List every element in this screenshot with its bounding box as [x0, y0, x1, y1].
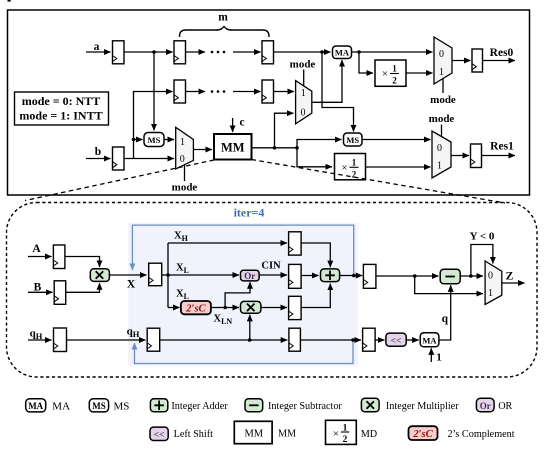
wire reg4c to adder bottom — [301, 284, 330, 308]
wire row1 to MA — [274, 51, 331, 53]
multiplier MM box — [214, 134, 252, 160]
svg-text:MS: MS — [114, 401, 130, 413]
svg-text:1: 1 — [439, 67, 444, 78]
wire reg5 to subtractor — [376, 275, 439, 277]
wire junction to MS2 top — [322, 52, 354, 132]
svg-text:MS: MS — [92, 401, 106, 411]
legend MA box — [26, 399, 46, 412]
legend MS box — [89, 399, 108, 412]
subtractor MS2 box — [344, 133, 363, 146]
svg-text:1: 1 — [488, 288, 493, 299]
wire qH to reg2 — [67, 339, 146, 341]
wire XL rail to Or — [168, 274, 239, 276]
svg-text:MA: MA — [422, 336, 437, 346]
legend MD box — [326, 420, 357, 445]
svg-text:0: 0 — [180, 154, 185, 165]
register res1 — [471, 144, 482, 168]
register reg4d — [289, 328, 301, 351]
register row1 last — [262, 41, 274, 64]
svg-text:MM: MM — [221, 141, 245, 155]
svg-text:1: 1 — [352, 157, 357, 167]
svg-text:2’s Complement: 2’s Complement — [448, 429, 515, 440]
wire shifter to MA2 — [406, 339, 419, 341]
wire mux res1 select — [441, 125, 443, 138]
svg-text:Y < 0: Y < 0 — [470, 231, 495, 243]
node junction a — [152, 50, 156, 54]
svg-text:<<: << — [391, 336, 402, 346]
node junction MM-mux1 — [273, 146, 277, 150]
register reg4a XH — [289, 232, 302, 255]
svg-text:<<: << — [154, 430, 165, 440]
svg-text:c: c — [240, 117, 245, 129]
svg-text:X: X — [127, 279, 136, 291]
node junction b-MS1 — [132, 138, 136, 142]
svg-text:MS: MS — [346, 135, 359, 145]
svg-text:A: A — [32, 243, 41, 255]
svg-text:Integer Subtractor: Integer Subtractor — [268, 401, 342, 412]
legend shifter box — [150, 427, 168, 440]
wire RA to mult1 top — [65, 257, 100, 268]
node junction q rail mult2 — [248, 338, 252, 342]
wire XLN to Or bottom — [225, 282, 250, 307]
mux1 labels — [301, 88, 306, 119]
register RqH2 — [147, 328, 160, 351]
wire MM to half-b box — [297, 148, 332, 167]
svg-text:Res0: Res0 — [490, 47, 514, 59]
svg-text:m: m — [218, 12, 228, 24]
legend MM box — [234, 421, 272, 443]
wire a input — [86, 51, 111, 53]
adder plus box — [321, 269, 340, 282]
wire Res1 output — [482, 155, 516, 157]
register reg4c XLN — [289, 296, 302, 319]
wire row2 to mux1 — [274, 91, 295, 93]
legend adder box — [150, 399, 167, 412]
svg-text:1: 1 — [180, 137, 185, 148]
wire sub to mux3 input0 — [460, 275, 483, 277]
mux1 mode-select row2 path — [296, 81, 312, 124]
wire reg4b to adder — [301, 275, 318, 277]
register Ra — [113, 41, 125, 64]
block 2sC two's complement — [181, 301, 211, 315]
dashed detail box MM internals — [7, 203, 538, 378]
svg-text:2′sC: 2′sC — [185, 304, 206, 315]
mux res1 — [432, 131, 451, 178]
wire Y to mux3 input1 — [415, 276, 483, 294]
wire mult1 to X reg — [109, 274, 146, 276]
wire qH input — [28, 339, 52, 341]
svg-text:mode = 1: INTT: mode = 1: INTT — [19, 109, 102, 123]
wire adder to reg5 — [340, 275, 363, 277]
svg-text:Res1: Res1 — [490, 141, 514, 153]
subtractor minus box — [440, 269, 460, 284]
node junction XLN — [223, 306, 227, 310]
mux res0 labels — [439, 49, 444, 78]
svg-text:Left Shift: Left Shift — [174, 429, 213, 440]
svg-text:0: 0 — [437, 143, 442, 154]
legend Or box — [476, 398, 494, 412]
wire MM output — [252, 147, 298, 149]
node junction blue bottom — [351, 338, 355, 342]
wire mux res1 to reg — [451, 155, 469, 157]
wire MA1 output — [352, 51, 433, 53]
svg-text:1: 1 — [437, 161, 442, 172]
wire blue feedback bottom loop — [135, 340, 354, 364]
wire X branch vertical — [162, 243, 168, 308]
svg-text:mode: mode — [430, 94, 456, 106]
wire qH rail to reg4d — [160, 339, 288, 341]
wire MA out to half-a — [359, 52, 373, 73]
wire mult2 bottom input from q rail — [249, 315, 251, 340]
node junction Y — [413, 274, 417, 278]
wire Or to reg4b — [259, 274, 287, 276]
mode legend box — [15, 92, 109, 125]
register row2 first — [174, 80, 186, 103]
brace m — [180, 27, 270, 38]
wire row1 dots — [186, 51, 261, 54]
node junction MM branch — [295, 146, 299, 150]
wire A input — [28, 256, 52, 258]
svg-text:MA: MA — [335, 48, 350, 58]
register reg5b — [363, 328, 376, 351]
outer box of NTT/INTT datapath — [8, 10, 530, 195]
svg-text:1: 1 — [392, 64, 397, 74]
adder MA1 box — [333, 46, 352, 59]
legend 2sC box — [409, 426, 438, 440]
svg-text:b: b — [95, 146, 101, 158]
node junction MA out — [357, 50, 361, 54]
multiplier half-a box x1/2 — [375, 60, 406, 86]
svg-text:0: 0 — [439, 49, 444, 60]
wire RB to mult1 bottom — [66, 283, 100, 292]
register RX — [149, 263, 162, 286]
subtractor MS1 box — [144, 133, 164, 147]
svg-text:CIN: CIN — [261, 260, 281, 271]
wire a junction down to MS1 top — [153, 52, 155, 131]
node junction blue top — [352, 274, 356, 278]
register Rb — [113, 147, 125, 170]
mux res0 — [434, 37, 452, 84]
svg-text:MA: MA — [28, 401, 43, 411]
svg-text:2: 2 — [392, 76, 397, 86]
register reg4b XL — [289, 264, 302, 288]
wire mux1 to MA bottom — [312, 60, 342, 102]
iter region fill — [128, 223, 357, 366]
wire half-b to res1 mux — [366, 166, 431, 168]
wire Y less 0 to mux3 select — [471, 245, 493, 277]
wire b to mux2 — [124, 158, 174, 160]
svg-text:MS: MS — [148, 135, 161, 145]
node junction row1-MS2 — [320, 50, 324, 54]
adder MA2 box — [420, 333, 439, 347]
svg-text:MD: MD — [361, 429, 377, 440]
svg-text:Integer Adder: Integer Adder — [171, 401, 228, 412]
wire mult2 to reg4c — [261, 307, 287, 309]
svg-text:2: 2 — [343, 435, 348, 445]
wire mux2 select mode — [184, 165, 186, 181]
svg-text:×: × — [333, 428, 339, 440]
wire MM to MS2 left — [297, 140, 342, 148]
wire 2sC to mult2 — [211, 307, 239, 309]
register RqH — [54, 328, 67, 352]
wire mux res0 to reg — [452, 60, 471, 62]
svg-text:mode: mode — [172, 182, 198, 194]
wire zoom dashed left — [25, 160, 214, 201]
register RA — [53, 245, 65, 269]
wire reg5b to shifter — [375, 339, 384, 341]
svg-text:1: 1 — [436, 352, 442, 364]
register row2 last — [262, 80, 274, 103]
svg-text:Or: Or — [244, 271, 255, 281]
mux3 output Z — [485, 261, 502, 305]
multiplier half-b box x1/2 — [335, 154, 366, 180]
wire mux2 to MM — [193, 149, 212, 151]
svg-text:Integer Multiplier: Integer Multiplier — [386, 401, 459, 412]
svg-text:×: × — [341, 162, 347, 174]
wire zoom dashed right — [252, 160, 506, 204]
wire reg4a to adder top — [301, 243, 330, 267]
register RB — [54, 281, 65, 305]
wire mux res0 select — [442, 79, 444, 93]
svg-text:2′sC: 2′sC — [412, 429, 433, 440]
legend multiplier box — [361, 398, 379, 412]
mux2 mode-select b path — [176, 127, 194, 169]
wire b input — [86, 158, 111, 160]
svg-text:Or: Or — [480, 401, 491, 411]
gate Or box — [241, 270, 260, 281]
svg-text:a: a — [94, 41, 100, 53]
wire half-a to res0 mux — [406, 72, 433, 74]
wire B input — [28, 291, 53, 293]
wire MA2 to sub bottom q — [439, 285, 451, 340]
svg-text:0: 0 — [301, 108, 306, 119]
wire row2 dots — [186, 90, 261, 93]
legend subtractor box — [245, 399, 263, 412]
wire blue feedback top loop — [132, 225, 353, 275]
wire 1 to MA2 bottom — [430, 348, 432, 362]
wire MM to mux1 input0 — [275, 113, 294, 148]
wire mux1 select mode — [303, 70, 305, 87]
wire XH rail — [168, 242, 287, 244]
top edge artifact — [8, 0, 11, 2]
svg-text:1: 1 — [301, 88, 306, 99]
multiplier mult2 — [241, 301, 261, 313]
wire Z output — [502, 282, 525, 284]
multiplier mult1 — [90, 269, 109, 282]
register res0 — [472, 49, 483, 72]
svg-text:q: q — [442, 313, 449, 325]
svg-text:mode: mode — [429, 113, 455, 125]
mux2 labels — [180, 137, 185, 165]
svg-text:OR: OR — [498, 401, 512, 412]
svg-text:0: 0 — [488, 271, 493, 282]
wire MS1 to mux2 — [164, 139, 174, 141]
mux res1 labels — [437, 143, 442, 172]
svg-text:Z: Z — [506, 271, 514, 283]
svg-text:MM: MM — [278, 429, 296, 440]
svg-text:MM: MM — [244, 429, 263, 440]
svg-text:×: × — [382, 68, 388, 80]
wire MS2 to res1 mux — [362, 139, 431, 141]
register row1 first — [174, 41, 186, 64]
wire b vertical to row2 — [134, 92, 173, 159]
svg-text:MA: MA — [52, 401, 70, 413]
shifter left shift box — [386, 333, 406, 346]
wire XL low to 2sC — [168, 307, 180, 309]
wire Res0 output — [483, 60, 516, 62]
svg-text:iter=4: iter=4 — [234, 206, 265, 220]
node junction sub out — [469, 274, 473, 278]
wire reg4d to reg5b — [300, 339, 361, 341]
svg-text:mode: mode — [290, 59, 316, 71]
wire b to MS1 left — [134, 139, 143, 141]
mux3 labels — [488, 271, 493, 300]
register reg5 — [363, 264, 376, 288]
wire c to MM — [232, 118, 234, 132]
svg-text:mode = 0: NTT: mode = 0: NTT — [22, 94, 101, 108]
wire a to chain — [124, 51, 173, 53]
node junction X — [166, 273, 170, 277]
